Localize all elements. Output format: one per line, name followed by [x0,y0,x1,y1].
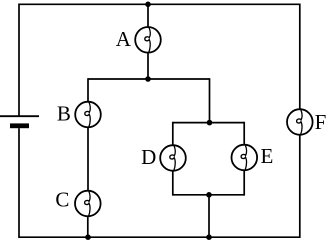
wire: E branch lower lead [243,170,245,195]
wire: left vertical, top of battery [18,4,20,117]
lamp F [287,109,313,135]
lamp A [135,27,161,53]
wire: B/C branch, below lamp C [87,216,89,237]
wire: D branch lower lead [172,171,174,196]
label F [315,110,327,134]
wire: right vertical below lamp F [299,135,301,238]
wire: vertical from middle wire down to D/E box top [209,78,211,122]
wire: bottom horizontal bus [19,236,300,238]
wire: lamp A branch, top lead [147,4,149,27]
svg-text:C: C [55,187,69,211]
label C [55,187,69,211]
label A [116,27,132,51]
lamp C [75,191,101,217]
svg-text:E: E [260,144,273,168]
wire: top horizontal bus [19,3,300,5]
label D [141,145,156,169]
wire: D/E box top horizontal [173,122,244,124]
node: bottom junction of D/E branch [206,234,212,240]
node: D/E box top junction [207,120,213,126]
lamp B [75,102,101,128]
wire: D branch upper lead [172,122,174,145]
node: top junction to lamp A branch [145,2,151,8]
wire: lamp A branch, bottom lead [147,53,149,79]
wire: vertical from D/E box bottom to bottom bus [208,195,210,237]
wire: middle horizontal between B branch and D/E branch [88,78,210,80]
label B [57,102,71,126]
label E [260,144,273,168]
wire: right vertical above lamp F [299,4,301,110]
lamp E [232,145,258,171]
wire: left vertical, below battery [18,128,20,238]
wire: B/C branch, above lamp B [87,78,89,102]
lamp D [160,145,186,171]
wire: D/E box bottom horizontal [173,194,244,196]
svg-text:F: F [315,110,327,134]
node: D/E box bottom junction [206,192,212,198]
svg-text:B: B [57,102,71,126]
svg-text:A: A [116,27,132,51]
battery (cell) [0,116,39,128]
node: middle junction under lamp A [145,76,151,82]
wire: B/C branch, between lamp B and lamp C [87,127,89,191]
svg-text:D: D [141,145,156,169]
wire: E branch upper lead [243,122,245,145]
node: bottom junction of B/C branch [85,234,91,240]
